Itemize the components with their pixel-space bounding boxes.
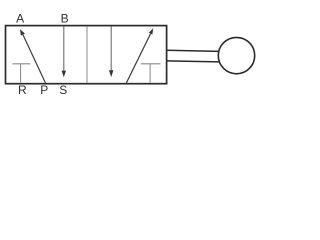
flow arrow B to S (left cell vertical) (62, 26, 66, 77)
blocked port R (left cell T symbol) (12, 64, 30, 83)
flow arrow P to A (left cell diagonal) (20, 29, 46, 83)
cell divider (86, 26, 88, 82)
flow arrow P to B (right cell diagonal) (126, 28, 153, 83)
svg-text:R: R (18, 83, 27, 97)
blocked port S (right cell T symbol) (141, 64, 161, 83)
lever shaft top line (167, 50, 219, 51)
lever knob circle (218, 37, 254, 73)
svg-text:P: P (40, 83, 48, 97)
flow arrow down (right cell vertical) (109, 26, 113, 77)
svg-text:B: B (61, 12, 69, 26)
svg-text:S: S (59, 83, 67, 97)
valve body box (6, 26, 167, 84)
lever shaft bottom line (167, 61, 220, 62)
svg-text:A: A (16, 12, 24, 26)
